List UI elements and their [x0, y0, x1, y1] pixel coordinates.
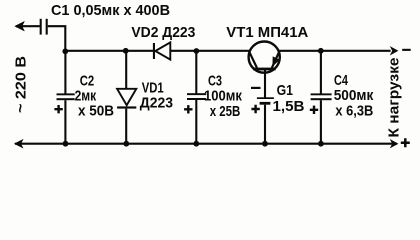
wire: VT1 base to battery G1 — [264, 69, 266, 98]
svg-text:x 50В: x 50В — [78, 103, 114, 119]
svg-text:x 25В: x 25В — [210, 104, 241, 120]
capacitor C4 — [311, 93, 332, 100]
node: bottom bus / VD1 — [123, 141, 129, 147]
label plus (output) — [401, 138, 410, 147]
wire: C2 branch from top bus to plates — [64, 51, 66, 94]
wire: top bus left segment — [65, 50, 153, 52]
label C2 plus — [54, 105, 62, 113]
wire: C4 to bottom bus — [320, 100, 322, 144]
svg-text:500мк: 500мк — [334, 88, 374, 104]
svg-text:100мк: 100мк — [204, 89, 242, 105]
capacitor C1 — [41, 19, 47, 35]
wire: VD1 to bottom bus — [125, 109, 127, 144]
svg-text:x 6,3В: x 6,3В — [335, 104, 373, 120]
wire: AC input bottom terminal arrow (left) — [14, 139, 24, 149]
svg-text:К нагрузке: К нагрузке — [387, 58, 403, 138]
wire: C1 to top bus corner — [48, 26, 66, 51]
svg-text:~ 220 В: ~ 220 В — [14, 56, 30, 113]
svg-text:C1 0,05мк x 400В: C1 0,05мк x 400В — [51, 3, 170, 19]
node: bottom bus / G1 — [262, 141, 268, 147]
svg-text:VD2 Д223: VD2 Д223 — [131, 25, 195, 41]
transistor VT1 emitter lead with PNP arrow — [272, 51, 280, 68]
battery G1 — [257, 97, 274, 104]
svg-text:C2: C2 — [80, 73, 95, 89]
diode VD1 (points down) — [117, 89, 136, 109]
node: top bus / C3 branch — [194, 48, 200, 54]
diode VD2 (cathode bar, points left) — [153, 42, 170, 59]
transistor VT1 (PNP) circle — [249, 42, 280, 73]
wire: top bus middle segment — [170, 50, 250, 52]
node: bottom bus / C3 — [193, 141, 199, 147]
label minus (output) — [402, 49, 411, 51]
svg-text:2мк: 2мк — [75, 88, 97, 104]
node: top bus / VD1 branch — [123, 48, 129, 54]
svg-text:Д223: Д223 — [140, 96, 173, 112]
svg-text:VD1: VD1 — [142, 80, 164, 96]
label C3 plus — [184, 105, 192, 113]
wire: AC input top terminal arrow (left) — [15, 21, 40, 31]
svg-text:VT1 МП41А: VT1 МП41А — [226, 25, 308, 41]
label G1 minus — [251, 87, 261, 89]
wire: output plus terminal arrow (right) — [390, 139, 399, 148]
transistor VT1 collector lead — [249, 51, 257, 68]
wire: C2 to bottom bus — [64, 100, 66, 144]
svg-text:C3: C3 — [208, 74, 222, 90]
node: top bus / C2 branch — [62, 48, 68, 54]
svg-text:G1: G1 — [277, 83, 293, 99]
svg-text:1,5В: 1,5В — [273, 99, 305, 115]
node: bottom bus / C2 — [63, 141, 69, 147]
label C4 plus — [310, 106, 318, 114]
svg-text:C4: C4 — [334, 73, 349, 89]
node: bottom bus / C4 — [318, 141, 324, 147]
wire: C3 branch from top bus — [195, 51, 197, 94]
wire: C4 branch from top bus — [320, 51, 322, 94]
wire: top bus right segment — [279, 50, 391, 52]
transistor VT1 base bar — [253, 68, 275, 71]
wire: VD1 branch from top bus — [125, 51, 127, 89]
wire: bottom bus — [15, 143, 397, 145]
label G1 plus — [251, 105, 259, 113]
wire: output minus terminal arrow (right) — [390, 46, 399, 55]
capacitor C3 — [187, 93, 206, 100]
node: top bus / C4 branch — [318, 48, 324, 54]
wire: G1 to bottom bus — [264, 105, 266, 144]
capacitor C2 — [57, 93, 75, 100]
wire: C3 to bottom bus — [195, 100, 197, 144]
